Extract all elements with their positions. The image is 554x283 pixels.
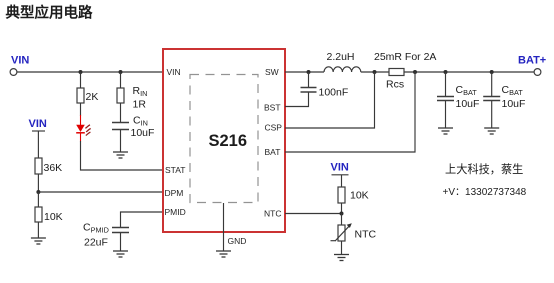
wire: junction down to 100nF — [308, 72, 310, 87]
svg-text:CSP: CSP — [265, 123, 283, 133]
svg-text:PMID: PMID — [165, 207, 186, 217]
IC inner dashed die box — [190, 75, 258, 203]
resistor 10K (left) — [35, 207, 63, 223]
node: DPM divider junction — [36, 190, 40, 194]
ground (IC GND) — [216, 251, 231, 257]
wire: SW pin to inductor — [285, 71, 324, 73]
svg-text:10uF: 10uF — [131, 127, 155, 139]
wire: CSP junction down and to CSP pin — [285, 72, 375, 128]
svg-text:CBAT: CBAT — [456, 84, 478, 97]
wire: 2K to LED — [80, 103, 82, 116]
svg-text:BST: BST — [264, 103, 281, 113]
resistor RIN 1R — [117, 85, 147, 110]
svg-text:BAT+: BAT+ — [518, 55, 546, 67]
svg-text:10uF: 10uF — [456, 98, 480, 110]
capacitor CBAT1 10uF — [437, 84, 479, 110]
svg-text:STAT: STAT — [165, 165, 185, 175]
svg-text:VIN: VIN — [29, 118, 47, 130]
wire: BAT junction down and to BAT pin — [285, 72, 415, 152]
IC U1 S216 charger outline — [163, 49, 285, 232]
wire: down to CBAT1 — [445, 72, 447, 96]
resistor 10K (NTC pullup) — [338, 187, 369, 203]
svg-text:+V：13302737348: +V：13302737348 — [443, 187, 527, 198]
svg-text:Rcs: Rcs — [386, 79, 404, 91]
node: CBAT2 junction — [490, 70, 494, 74]
wire: CPMID to ground — [120, 233, 122, 251]
terminal VIN (input) — [10, 55, 29, 76]
wire: RIN to CIN — [120, 103, 122, 122]
svg-text:SW: SW — [265, 67, 279, 77]
wire: junction down to R 2K — [80, 72, 82, 88]
node: CSP junction — [373, 70, 377, 74]
ground (CBAT1) — [438, 128, 453, 134]
node: BAT junction — [413, 70, 417, 74]
ground (CBAT2) — [484, 128, 499, 134]
terminal BAT+ — [518, 55, 546, 76]
wire: 36K to junction — [37, 174, 39, 192]
node: RIN branch junction — [119, 70, 123, 74]
svg-text:1R: 1R — [133, 98, 147, 110]
wire: down to CBAT2 — [491, 72, 493, 96]
svg-text:典型应用电路: 典型应用电路 — [6, 3, 93, 21]
svg-text:2K: 2K — [86, 91, 99, 103]
wire: junction to 10K to ground — [37, 192, 39, 207]
pin GND stem — [223, 203, 225, 251]
wire: CIN to ground — [120, 130, 122, 152]
resistor Rcs 25mR — [374, 51, 436, 91]
wire: LED cathode down and right to STAT pin — [81, 141, 163, 170]
wire: 10K to NTC node — [341, 203, 343, 214]
svg-text:VIN: VIN — [167, 67, 181, 77]
svg-text:CBAT: CBAT — [502, 84, 524, 97]
svg-text:25mR For 2A: 25mR For 2A — [374, 51, 436, 63]
svg-text:S216: S216 — [209, 132, 248, 150]
node: 2K branch junction — [79, 70, 83, 74]
ground (CPMID) — [113, 251, 128, 257]
inductor L1 2.2uH — [324, 51, 361, 72]
svg-text:36K: 36K — [44, 162, 63, 174]
svg-text:CIN: CIN — [133, 114, 148, 127]
ground (10K) — [31, 238, 46, 244]
svg-text:BAT: BAT — [265, 147, 281, 157]
ground (CIN) — [113, 152, 128, 158]
resistor 36K — [35, 158, 62, 174]
thermistor NTC — [331, 214, 377, 242]
wire: junction to DPM pin — [38, 191, 162, 193]
wire: 100nF to BST pin — [285, 93, 309, 107]
svg-text:DPM: DPM — [165, 188, 184, 198]
wire: CBAT2 to ground — [491, 101, 493, 128]
capacitor 100nF (bootstrap) — [301, 87, 349, 99]
svg-text:CPMID: CPMID — [83, 222, 109, 235]
svg-text:RIN: RIN — [133, 85, 148, 98]
node: NTC junction — [340, 212, 344, 216]
svg-text:GND: GND — [228, 236, 247, 246]
capacitor CPMID 22uF — [83, 222, 129, 249]
wire: CBAT1 to ground — [445, 101, 447, 128]
node: CBAT1 junction — [444, 70, 448, 74]
svg-text:NTC: NTC — [264, 209, 281, 219]
svg-text:22uF: 22uF — [84, 237, 108, 249]
wire: PMID pin to CPMID — [121, 212, 163, 227]
svg-text:100nF: 100nF — [319, 87, 349, 99]
wire: top VIN rail to IC — [17, 71, 162, 73]
svg-text:上大科技，蔡生: 上大科技，蔡生 — [445, 162, 523, 176]
wire: NTC to ground — [341, 241, 343, 255]
wire: Rcs to BAT+ — [404, 71, 534, 73]
svg-text:10K: 10K — [44, 211, 63, 223]
resistor 2K — [77, 88, 98, 103]
capacitor CBAT2 10uF — [483, 84, 525, 110]
svg-text:2.2uH: 2.2uH — [327, 51, 355, 63]
svg-text:NTC: NTC — [355, 229, 377, 241]
power rail VIN (left, for DPM divider) — [29, 118, 47, 158]
wire: NTC pin to node — [285, 213, 342, 215]
ground (NTC) — [334, 255, 349, 261]
wire: inductor to Rcs — [361, 71, 389, 73]
svg-text:VIN: VIN — [331, 162, 349, 174]
wire: junction down to RIN — [120, 72, 122, 88]
capacitor CIN 10uF — [112, 114, 154, 139]
power rail VIN (NTC divider) — [331, 162, 349, 188]
svg-text:10uF: 10uF — [502, 98, 526, 110]
svg-text:10K: 10K — [350, 190, 369, 202]
node: SW/100nF junction — [307, 70, 311, 74]
LED D1 (red) — [76, 115, 91, 142]
svg-text:VIN: VIN — [11, 55, 29, 67]
